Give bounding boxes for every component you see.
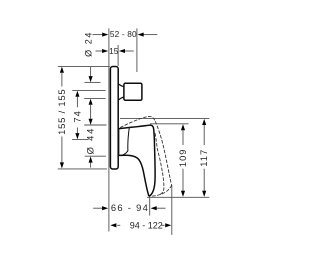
handle neck cone [119, 84, 124, 99]
wire extension line E [84, 124, 106, 126]
wire extension line G [85, 155, 106, 157]
dimension 109 [177, 124, 188, 197]
wire extension line I dashed spout top [120, 117, 209, 119]
wire extension line C [72, 90, 105, 92]
dimension 117 [198, 119, 209, 197]
leader arrow diameter 24 [89, 67, 93, 83]
dimension diameter 44 arrows [89, 99, 93, 125]
svg-text:15: 15 [109, 46, 119, 56]
wire extension line 15 right [117, 45, 119, 66]
wire extension line L 94-122 right [171, 185, 173, 235]
spout dashed alternate position front curve [155, 122, 171, 186]
dimension 94 - 122 [110, 221, 171, 231]
spout inner joint line [121, 128, 129, 155]
wire extension line 52-80 right [136, 28, 138, 72]
wire extension line H bottom of plate [58, 168, 107, 170]
wire wall surface line [108, 28, 110, 231]
wire extension line A top of plate [58, 66, 110, 68]
svg-text:66 - 94: 66 - 94 [111, 202, 149, 213]
faucet drawing [110, 67, 171, 197]
svg-text:155 / 155: 155 / 155 [56, 89, 67, 135]
dimension 66 - 94 [93, 202, 165, 213]
wire extension line spout bottom [147, 196, 209, 198]
spout dashed alternate position top arc [121, 117, 172, 197]
dimension 155 / 155 [56, 67, 67, 169]
dimension 74 [71, 91, 82, 140]
spout dashed alternate position return curve [152, 185, 171, 196]
wire extension line B [85, 81, 101, 83]
spout body [119, 125, 156, 196]
dimension 52 - 80 [93, 29, 158, 39]
arrow below G [89, 157, 93, 168]
svg-text:52 - 80: 52 - 80 [110, 29, 137, 39]
svg-text:94 - 122: 94 - 122 [130, 221, 163, 231]
svg-text:109: 109 [177, 148, 188, 167]
svg-text:74: 74 [71, 110, 82, 122]
svg-text:117: 117 [198, 149, 209, 167]
svg-text:Ø 44: Ø 44 [85, 127, 96, 155]
spout dashed inner curve [155, 134, 164, 195]
wire extension line J solid spout top [150, 123, 189, 125]
handle lever head [124, 83, 142, 100]
wire extension line F [72, 138, 89, 140]
svg-text:Ø 24: Ø 24 [84, 31, 94, 57]
dimension 15 [96, 46, 134, 56]
wire extension line K 66-94 right [149, 195, 151, 216]
escutcheon wall plate [110, 67, 118, 170]
wire extension line D [84, 98, 105, 100]
